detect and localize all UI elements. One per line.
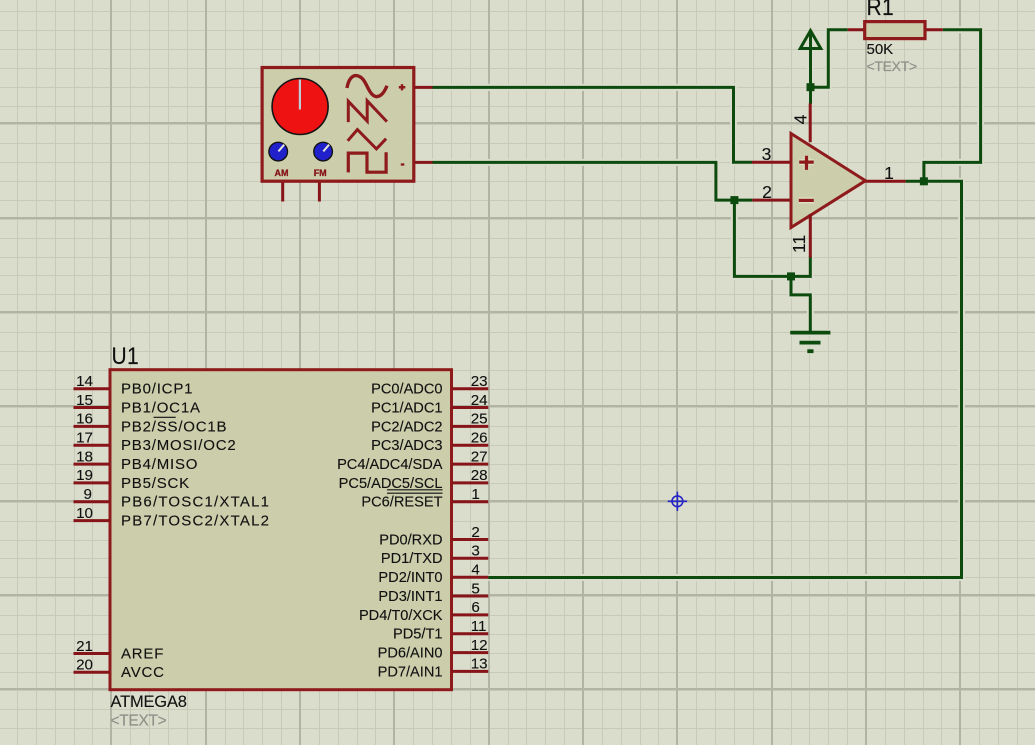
wire: siggen plus to opamp pin3: [432, 87, 752, 162]
wire: siggen minus to opamp pin2: [432, 162, 752, 200]
junction node D (output net): [920, 177, 928, 185]
svg-text:PB5/SCK: PB5/SCK: [121, 475, 190, 492]
pin 11 op-amp: [809, 214, 812, 258]
op-amp minus mark: [799, 197, 814, 203]
junction node C (power net): [807, 83, 815, 91]
svg-text:PD3/INT1: PD3/INT1: [378, 589, 442, 605]
svg-text:12: 12: [471, 637, 488, 654]
svg-text:17: 17: [76, 430, 93, 447]
svg-text:PC2/ADC2: PC2/ADC2: [371, 419, 442, 435]
svg-text:15: 15: [76, 392, 93, 409]
pin 2 op-amp: [752, 199, 791, 202]
pin: signal generator AM stub: [281, 181, 284, 202]
svg-text:PB3/MOSI/OC2: PB3/MOSI/OC2: [121, 437, 236, 454]
svg-text:PD7/AIN1: PD7/AIN1: [378, 664, 443, 680]
signal generator body: [262, 68, 414, 182]
wire: feedback output node to R1 right: [924, 30, 981, 182]
chip pins left: [74, 389, 111, 673]
svg-text:R1: R1: [867, 0, 894, 20]
FM knob pointer: [323, 145, 329, 152]
wire: node to ground jog: [791, 276, 810, 332]
svg-text:PC1/ADC1: PC1/ADC1: [371, 400, 442, 416]
origin marker crosshair: [668, 492, 687, 511]
R1 left lead: [848, 28, 866, 31]
power symbol: [800, 31, 821, 49]
wire: power node to R1 left: [811, 30, 848, 87]
svg-text:PB6/TOSC1/XTAL1: PB6/TOSC1/XTAL1: [121, 494, 270, 511]
svg-text:AREF: AREF: [121, 645, 164, 662]
svg-text:2: 2: [762, 182, 772, 202]
ground: [790, 333, 830, 352]
left pin names: [121, 381, 270, 682]
right pin numbers: [471, 373, 488, 673]
svg-text:24: 24: [471, 392, 488, 409]
svg-text:3: 3: [762, 144, 772, 164]
pin: signal generator - output: [414, 161, 433, 164]
svg-text:AVCC: AVCC: [121, 664, 165, 681]
svg-text:18: 18: [76, 448, 93, 465]
pin: signal generator + output: [414, 86, 433, 89]
svg-text:ATMEGA8: ATMEGA8: [111, 693, 187, 711]
svg-text:PC6/RESET: PC6/RESET: [361, 495, 442, 511]
svg-text:5: 5: [471, 580, 479, 597]
svg-text:9: 9: [84, 486, 92, 503]
svg-text:21: 21: [76, 638, 93, 655]
right pin names: [337, 382, 443, 681]
junction node A (pin2 net): [730, 196, 738, 204]
ATMEGA8 U1 body: [110, 370, 452, 690]
wire: power stem to opamp pin4: [809, 31, 812, 104]
svg-text:1: 1: [471, 486, 479, 503]
svg-text:28: 28: [471, 467, 488, 484]
svg-text:25: 25: [471, 411, 488, 428]
svg-text:PC0/ADC0: PC0/ADC0: [371, 382, 442, 398]
left pin numbers: [76, 373, 93, 674]
svg-text:27: 27: [471, 448, 488, 465]
wire halos: [432, 30, 981, 578]
svg-text:PC4/ADC4/SDA: PC4/ADC4/SDA: [337, 457, 443, 473]
svg-text:PC3/ADC3: PC3/ADC3: [371, 438, 442, 454]
wire: pin2 node down to pin11 net: [734, 199, 810, 277]
svg-text:4: 4: [791, 114, 811, 124]
junction node B (pin11/gnd net): [787, 272, 795, 280]
svg-text:PB1/OC1A: PB1/OC1A: [121, 399, 201, 416]
op-amp plus mark: [799, 156, 814, 170]
svg-text:U1: U1: [112, 343, 139, 370]
svg-text:PD1/TXD: PD1/TXD: [381, 551, 443, 567]
svg-text:PD5/T1: PD5/T1: [393, 627, 442, 643]
svg-text:PD4/T0/XCK: PD4/T0/XCK: [359, 608, 443, 624]
R1 right lead: [925, 28, 943, 31]
svg-text:PD6/AIN0: PD6/AIN0: [378, 646, 443, 662]
svg-text:PB4/MISO: PB4/MISO: [121, 456, 198, 473]
square wave glyph: [348, 152, 386, 172]
svg-text:20: 20: [76, 657, 93, 674]
overline for SS of PB2: [154, 416, 176, 418]
signal generator big knob: [272, 79, 328, 135]
wire: opamp output to ATMEGA8 PD2: [488, 181, 961, 577]
svg-text:13: 13: [471, 656, 488, 673]
AM knob pointer: [278, 145, 284, 152]
svg-text:PB7/TOSC2/XTAL2: PB7/TOSC2/XTAL2: [121, 513, 270, 530]
svg-text:11: 11: [789, 235, 809, 253]
op-amp U2 body: [791, 134, 866, 228]
svg-text:PB2/SS/OC1B: PB2/SS/OC1B: [121, 418, 227, 435]
triangle wave glyph: [348, 130, 386, 149]
svg-text:4: 4: [471, 562, 479, 579]
pin: signal generator FM stub: [318, 181, 321, 202]
siggen minus label: [401, 163, 405, 165]
chip pins right: [452, 389, 489, 672]
svg-text:<TEXT>: <TEXT>: [111, 713, 167, 730]
svg-text:10: 10: [76, 505, 93, 522]
svg-text:2: 2: [471, 524, 479, 541]
siggen plus label: [399, 84, 406, 90]
svg-text:FM: FM: [314, 168, 327, 178]
svg-text:14: 14: [76, 373, 93, 390]
pin 1 op-amp output: [866, 180, 906, 183]
sawtooth wave glyph: [348, 101, 387, 122]
pin 4 op-amp: [809, 104, 812, 143]
svg-text:19: 19: [76, 467, 93, 484]
svg-text:16: 16: [76, 411, 93, 428]
svg-text:1: 1: [884, 163, 894, 183]
sine wave glyph: [347, 76, 387, 97]
FM knob: [314, 142, 333, 161]
svg-text:6: 6: [471, 599, 479, 616]
AM knob: [269, 142, 288, 161]
svg-text:PD2/INT0: PD2/INT0: [378, 570, 442, 586]
svg-text:3: 3: [471, 543, 479, 560]
overline pair above RESET: [387, 490, 443, 493]
svg-text:AM: AM: [275, 168, 289, 178]
svg-text:PD0/RXD: PD0/RXD: [379, 532, 442, 548]
pin 3 op-amp: [752, 161, 791, 164]
svg-text:<TEXT>: <TEXT>: [867, 58, 917, 74]
svg-text:26: 26: [471, 430, 488, 447]
svg-text:50K: 50K: [867, 41, 894, 58]
svg-text:PB0/ICP1: PB0/ICP1: [121, 381, 193, 398]
resistor R1: [865, 22, 925, 39]
svg-text:11: 11: [471, 618, 487, 635]
svg-text:23: 23: [471, 373, 488, 390]
big knob pointer: [299, 80, 301, 110]
